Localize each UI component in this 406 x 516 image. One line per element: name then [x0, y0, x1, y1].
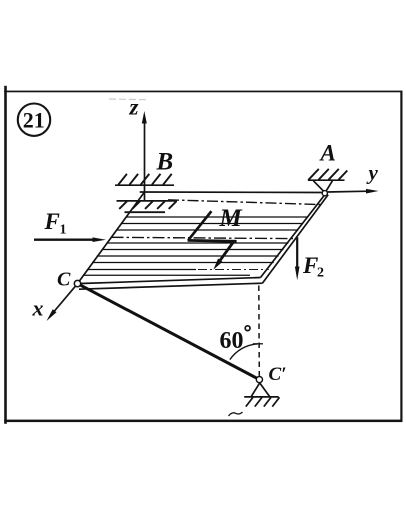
arc end tick: [253, 343, 263, 345]
moment M arrowhead: [213, 259, 222, 270]
svg-text:x: x: [32, 296, 44, 321]
pin circle at C': [256, 377, 262, 383]
rod C-C': [80, 285, 256, 378]
svg-text:C: C: [57, 268, 71, 290]
frame right edge: [400, 91, 402, 422]
problem number 21 circle: [18, 104, 50, 136]
wall hatch below B: strokes: [119, 201, 176, 209]
svg-text:z: z: [129, 94, 139, 119]
svg-text:y: y: [366, 161, 379, 185]
60 degree arc: [230, 344, 258, 360]
upper dash-dot axis line: [168, 200, 322, 205]
force F2 arrow stem: [296, 237, 298, 268]
plate front bottom edge (thickness): [79, 283, 262, 289]
svg-text:21: 21: [23, 107, 45, 132]
y-axis arrowhead: [366, 189, 379, 194]
svg-text:C′: C′: [269, 364, 287, 385]
plate right edge inner A-FR: [261, 193, 327, 278]
frame bottom edge: [4, 420, 402, 423]
plate ruled lines: [83, 217, 308, 275]
pin circle at C: [74, 280, 80, 286]
wall hatch below B: bottom short line: [125, 211, 166, 213]
degree symbol: [245, 326, 250, 331]
plate left edge B-C: [79, 192, 144, 281]
svg-text:1: 1: [60, 223, 67, 238]
frame left edge: [4, 86, 7, 424]
svg-text:B: B: [156, 149, 174, 176]
ground hatch strokes at C': [246, 397, 280, 406]
wall hatch above B: base line: [115, 184, 174, 186]
support triangle at C' left side: [251, 383, 259, 397]
plate front top edge C-FR: [81, 278, 261, 284]
pin circle at A: [322, 191, 327, 196]
force F1 arrow stem: [34, 238, 94, 240]
x-axis line: [52, 286, 76, 314]
svg-text:60: 60: [220, 328, 244, 354]
z-axis arrowhead: [142, 111, 147, 124]
force F2 arrowhead: [295, 267, 300, 281]
wall hatch above B: strokes: [118, 174, 171, 185]
support triangle at A right side: [326, 181, 332, 191]
moment M stroke 2: [188, 239, 237, 243]
wall hatch at A: strokes: [309, 169, 348, 180]
z-axis line: [144, 121, 146, 201]
frame top edge: [4, 91, 401, 93]
svg-text:F: F: [302, 253, 318, 278]
svg-text:2: 2: [317, 266, 324, 281]
plate top edge B-A: [140, 191, 327, 194]
squiggle mark: [229, 412, 243, 416]
ruled line dash-dot right portion: [198, 269, 269, 271]
x-axis arrowhead: [47, 309, 57, 321]
dashed vertical line FR to C': [258, 286, 261, 376]
svg-text:F: F: [44, 209, 60, 234]
force F1 arrowhead: [93, 237, 107, 242]
support triangle at C' right side: [260, 383, 270, 397]
moment M stroke 1: [188, 211, 211, 240]
wall hatch below B: base line: [117, 200, 178, 202]
support triangle at A left side: [313, 181, 323, 191]
wall hatch at A: base line: [308, 179, 345, 181]
faint scan smudge: [109, 98, 146, 101]
svg-text:A: A: [319, 141, 336, 166]
moment M stroke 3 arrow shaft: [220, 243, 233, 261]
plate right edge outer (thickness): [262, 195, 328, 284]
ground line at C': [244, 396, 278, 398]
svg-text:M: M: [219, 205, 243, 232]
y-axis stem: [327, 190, 368, 193]
middle dash-dot axis line: [112, 237, 294, 238]
